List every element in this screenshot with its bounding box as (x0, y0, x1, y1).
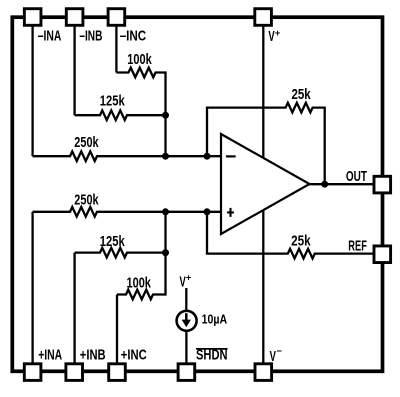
pin SHDN (178, 364, 195, 381)
svg-text:250k: 250k (74, 135, 99, 151)
wire bus (top) (164, 115, 166, 156)
wire V+ to current source (185, 288, 187, 312)
svg-text:–INC: –INC (120, 27, 147, 44)
svg-text:+INA: +INA (38, 347, 62, 364)
op-amp U1 (221, 134, 310, 234)
junction dot (plus line / REF branch) (204, 208, 211, 215)
wire current source to SHDN pin (185, 331, 187, 363)
wire op-amp output to OUT pin (309, 183, 373, 185)
resistor 125k (top) with leads (75, 110, 166, 120)
svg-text:100k: 100k (127, 276, 152, 292)
svg-text:V: V (270, 348, 276, 365)
svg-text:25k: 25k (292, 87, 312, 103)
svg-text:+INC: +INC (121, 347, 147, 364)
svg-text:V: V (268, 28, 274, 45)
wire -INB vertical (73, 27, 75, 116)
svg-text:SHDN: SHDN (196, 348, 228, 364)
wire branch to 25k REF resistor (207, 212, 373, 259)
svg-text:V: V (180, 274, 186, 291)
svg-text:+INB: +INB (80, 347, 106, 364)
junction dot (output / feedback) (321, 181, 328, 188)
pin -INA (24, 9, 41, 26)
pin +INB (66, 364, 83, 381)
svg-text:+: + (186, 273, 192, 284)
pin V+ (255, 9, 272, 26)
pin +INC (109, 364, 126, 381)
junction dot (bottom bus / 125k) (162, 249, 169, 256)
svg-text:250k: 250k (74, 192, 99, 208)
resistor 250k (top) with leads to op-amp minus input (33, 151, 222, 161)
wire bus (bottom) (164, 212, 166, 253)
svg-text:125k: 125k (100, 93, 126, 109)
resistor 100k (bottom) with leads and rise to bus (117, 253, 166, 300)
svg-text:–: – (277, 346, 283, 357)
op-amp plus sign (227, 208, 234, 217)
junction dot (top bus / 125k) (162, 112, 169, 119)
svg-text:–INA: –INA (38, 27, 62, 44)
resistor 100k (top) with leads and drop to bus (116, 68, 165, 116)
svg-text:REF: REF (348, 239, 367, 255)
current source 10uA circle (177, 311, 197, 331)
pin OUT (374, 176, 391, 193)
svg-text:125k: 125k (100, 234, 126, 250)
junction dot (minus line / feedback) (204, 153, 211, 160)
pin V- (255, 364, 272, 381)
pin -INB (66, 9, 83, 26)
op-amp minus sign (226, 155, 236, 157)
wire -INA vertical (31, 27, 33, 157)
svg-text:–INB: –INB (79, 27, 102, 44)
wire V+ to V- supply line (262, 27, 264, 363)
current source arrow (185, 313, 188, 321)
wire feedback to 25k (top) (207, 103, 325, 184)
svg-text:OUT: OUT (346, 169, 367, 185)
wire -INC vertical (115, 27, 117, 73)
wire +INB vertical (73, 253, 75, 363)
wire +INA vertical (31, 212, 33, 363)
resistor 125k (bottom) with leads (75, 248, 166, 258)
pin +INA (24, 364, 41, 381)
svg-text:10µA: 10µA (202, 312, 228, 326)
junction dot (top bus / minus line) (162, 153, 169, 160)
pin REF (374, 246, 391, 263)
svg-text:25k: 25k (291, 234, 311, 250)
junction dot (bottom bus / plus line) (162, 208, 169, 215)
resistor 250k (bottom) with leads to op-amp plus input (33, 207, 222, 217)
svg-text:100k: 100k (127, 52, 152, 68)
svg-text:+: + (275, 28, 281, 39)
wire +INC vertical (116, 295, 118, 363)
pin -INC (108, 9, 125, 26)
